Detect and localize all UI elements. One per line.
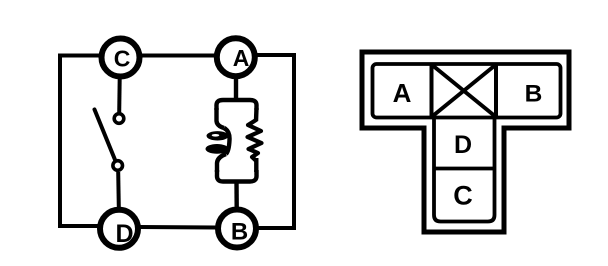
inductor L spine — [224, 128, 230, 154]
wire A to parallel network top node — [234, 78, 238, 101]
wire top-left segment (C to left corner) — [62, 54, 99, 58]
wire top-right segment (A to right corner) — [257, 53, 294, 57]
switch S1 blade (open) — [95, 110, 116, 161]
terminal A — [217, 38, 255, 76]
parallel network top bar — [216, 100, 256, 110]
inductor L branch upper lead — [217, 108, 225, 128]
inductor L branch lower lead — [217, 154, 226, 172]
T-block separator A|X — [430, 64, 434, 118]
T-block inner bar frame — [373, 64, 561, 118]
terminal D — [100, 210, 138, 248]
terminal C — [102, 39, 140, 77]
inductor L loop 1 hole — [212, 134, 220, 137]
X cell diagonal 1 — [432, 65, 497, 118]
svg-text:C: C — [114, 46, 131, 72]
svg-text:D: D — [115, 220, 133, 248]
wire switch bottom contact to D — [116, 172, 121, 207]
parallel network bottom bar — [217, 170, 257, 182]
switch S1 top contact — [114, 114, 124, 124]
svg-text:C: C — [453, 181, 473, 211]
svg-text:A: A — [393, 78, 412, 108]
wire bottom-right segment (right corner to B) — [258, 226, 294, 230]
wire parallel network bottom node to B — [234, 182, 239, 207]
T-block separator X|B — [494, 64, 498, 118]
inductor L loop 1 — [207, 131, 229, 140]
T-block inner stem frame — [434, 116, 495, 222]
switch S1 bottom contact — [113, 161, 123, 171]
svg-text:A: A — [233, 45, 250, 71]
svg-text:D: D — [454, 131, 472, 159]
inductor L loop 2 — [206, 144, 229, 154]
wire C to switch top contact — [117, 78, 122, 113]
wire top-middle segment (C to A) — [141, 54, 216, 58]
T-block outer border — [362, 52, 569, 232]
terminal B — [218, 210, 256, 248]
svg-text:B: B — [231, 219, 248, 246]
X cell diagonal 2 — [432, 65, 497, 118]
wire left vertical segment — [58, 56, 62, 227]
wire bottom-left segment (left corner to D) — [60, 224, 98, 228]
resistor R branch upper lead — [254, 108, 259, 121]
T-block separator D/C — [434, 167, 495, 171]
wire bottom-middle segment (D to B) — [140, 225, 216, 230]
svg-text:B: B — [525, 81, 543, 108]
resistor R zigzag — [248, 120, 262, 161]
resistor R branch lower lead — [254, 158, 258, 172]
wire right vertical segment — [292, 55, 296, 228]
